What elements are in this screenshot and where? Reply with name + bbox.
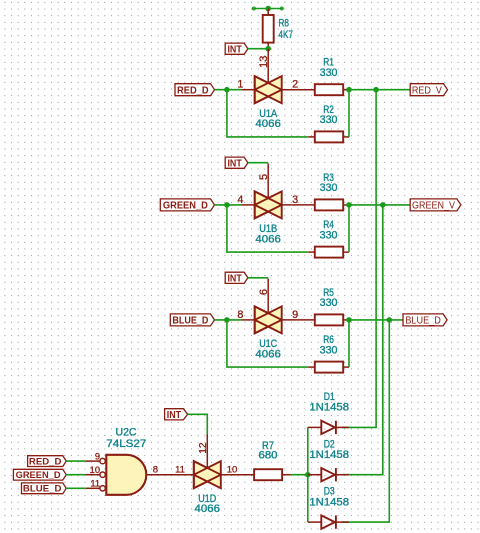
R8 pin 2 bbox=[267, 43, 269, 49]
global label GREEN_D (gate input) bbox=[13, 469, 66, 480]
junction input node bbox=[224, 202, 230, 208]
svg-text:4K7: 4K7 bbox=[279, 29, 293, 41]
svg-text:5: 5 bbox=[258, 174, 270, 180]
svg-text:1: 1 bbox=[237, 79, 243, 91]
wire end marker left bbox=[252, 7, 255, 10]
R8 pin 1 bbox=[267, 9, 269, 15]
global label RED_D bbox=[175, 84, 215, 97]
junction bus node bbox=[373, 87, 379, 93]
svg-text:INT: INT bbox=[167, 410, 181, 421]
svg-text:U2C: U2C bbox=[116, 426, 137, 438]
U2C pin 10 bbox=[86, 474, 100, 476]
wire GREEN_D to U2C bbox=[66, 474, 85, 476]
svg-text:330: 330 bbox=[320, 182, 338, 194]
svg-text:BLUE_D: BLUE_D bbox=[23, 484, 62, 494]
analog switch U1B bbox=[255, 191, 282, 218]
R2 left pin bbox=[308, 136, 315, 138]
wire blue bus to D3 bbox=[342, 320, 390, 522]
svg-text:9: 9 bbox=[95, 451, 100, 461]
svg-text:4066: 4066 bbox=[255, 233, 281, 245]
analog switch U1A bbox=[255, 76, 282, 103]
global label INT (U1C control) bbox=[225, 272, 248, 284]
U1B pin 5 (control) bbox=[267, 164, 269, 199]
svg-text:6: 6 bbox=[258, 289, 270, 295]
junction bus node bbox=[380, 202, 386, 208]
junction tie node bbox=[346, 202, 352, 208]
resistor R2 bbox=[315, 131, 343, 142]
junction R7/diode node bbox=[305, 472, 311, 478]
NOR gate U2C (74LS27, AND shape with input bubbles) bbox=[100, 455, 146, 495]
analog switch U1D bbox=[194, 461, 221, 488]
U1C pin 8 bbox=[241, 319, 254, 321]
junction R8 top node bbox=[265, 6, 271, 12]
global label BLUE_D (gate input) bbox=[22, 483, 67, 494]
svg-text:4066: 4066 bbox=[255, 348, 281, 360]
U1C pin 6 (control) bbox=[267, 279, 269, 314]
wire input to switch bbox=[215, 204, 242, 206]
svg-text:8: 8 bbox=[237, 309, 243, 321]
D2 cathode pin bbox=[336, 474, 349, 476]
U2C pin 9 bbox=[86, 460, 100, 462]
U1D pin 11 bbox=[175, 474, 194, 476]
svg-text:4066: 4066 bbox=[255, 118, 281, 130]
svg-text:GREEN_D: GREEN_D bbox=[163, 201, 208, 212]
resistor R7 bbox=[254, 469, 282, 480]
svg-text:INT: INT bbox=[227, 44, 241, 55]
svg-text:11: 11 bbox=[90, 479, 100, 489]
global label RED_D (gate input) bbox=[28, 456, 67, 467]
R5 right pin bbox=[343, 319, 349, 321]
wire red bus to D1 bbox=[342, 90, 376, 428]
svg-text:330: 330 bbox=[320, 114, 338, 126]
svg-text:INT: INT bbox=[227, 273, 241, 284]
svg-text:11: 11 bbox=[175, 465, 185, 476]
U2C pin 8 (output) bbox=[146, 474, 175, 476]
svg-text:1N1458: 1N1458 bbox=[309, 449, 349, 461]
wire lower resistor tie-up bbox=[348, 205, 350, 252]
R2 right pin bbox=[343, 136, 349, 138]
wire input to switch bbox=[215, 89, 242, 91]
svg-text:13: 13 bbox=[258, 56, 270, 68]
R4 left pin bbox=[308, 251, 315, 253]
svg-text:10: 10 bbox=[90, 465, 100, 475]
global label INT (U1D control) bbox=[165, 409, 188, 421]
wire bypass to lower resistor bbox=[227, 320, 308, 367]
wire INT to U1D control bbox=[188, 414, 208, 434]
svg-text:R8: R8 bbox=[279, 18, 290, 30]
wire BLUE_D to U2C bbox=[66, 487, 85, 489]
svg-text:3: 3 bbox=[292, 194, 298, 206]
wire INT to control pin bbox=[248, 162, 268, 164]
svg-text:330: 330 bbox=[320, 229, 338, 241]
svg-text:9: 9 bbox=[292, 309, 298, 321]
wire input to switch bbox=[215, 319, 242, 321]
svg-text:GREEN_D: GREEN_D bbox=[16, 470, 61, 480]
svg-text:8: 8 bbox=[153, 465, 158, 476]
R7 right pin bbox=[282, 474, 291, 476]
svg-text:330: 330 bbox=[320, 297, 338, 309]
svg-text:BLUE_D: BLUE_D bbox=[405, 316, 441, 327]
resistor R5 bbox=[315, 314, 343, 325]
global label GREEN_V bbox=[410, 199, 461, 212]
svg-text:10: 10 bbox=[227, 465, 238, 476]
diode D3 bbox=[321, 515, 336, 528]
D1 anode pin bbox=[308, 426, 322, 428]
junction bus node bbox=[387, 317, 393, 323]
global label GREEN_D bbox=[160, 199, 214, 212]
U1B pin 4 bbox=[241, 204, 254, 206]
wire RED_D to U2C bbox=[66, 460, 85, 462]
svg-text:BLUE_D: BLUE_D bbox=[172, 316, 208, 327]
U1A pin 1 bbox=[241, 89, 254, 91]
wire green bus to D2 bbox=[342, 205, 383, 475]
U1A pin 13 (control) bbox=[267, 49, 269, 83]
D2 anode pin bbox=[308, 474, 322, 476]
U1C pin 9 bbox=[282, 319, 315, 321]
wire INT to control pin bbox=[248, 277, 268, 279]
svg-text:12: 12 bbox=[198, 442, 209, 454]
svg-text:330: 330 bbox=[320, 344, 338, 356]
R6 left pin bbox=[308, 366, 315, 368]
svg-text:4: 4 bbox=[237, 194, 243, 206]
svg-text:1N1458: 1N1458 bbox=[309, 402, 349, 414]
wire lower resistor tie-up bbox=[348, 90, 350, 137]
D3 cathode pin bbox=[336, 521, 349, 523]
svg-text:330: 330 bbox=[320, 67, 338, 79]
wire lower resistor tie-up bbox=[348, 320, 350, 367]
resistor R4 bbox=[315, 247, 343, 258]
svg-text:RED_D: RED_D bbox=[177, 85, 209, 96]
wire bypass to lower resistor bbox=[227, 90, 308, 137]
svg-text:680: 680 bbox=[259, 450, 278, 462]
junction INT/R8/pin13 node bbox=[265, 46, 271, 52]
resistor R8 bbox=[263, 15, 274, 43]
U1A pin 2 bbox=[282, 89, 315, 91]
resistor R3 bbox=[315, 199, 343, 210]
global label INT (U1B control) bbox=[225, 157, 248, 169]
svg-text:2: 2 bbox=[292, 79, 298, 91]
junction input node bbox=[224, 317, 230, 323]
wire diode anode bus bbox=[307, 427, 309, 522]
R4 right pin bbox=[343, 251, 349, 253]
U2C pin 11 bbox=[86, 487, 100, 489]
wire to right label bbox=[349, 204, 410, 206]
U1D pin 10 bbox=[221, 474, 254, 476]
global label BLUE_D bbox=[403, 314, 447, 327]
junction tie node bbox=[346, 317, 352, 323]
wire R7 to diode bus bbox=[291, 474, 308, 476]
svg-text:RED_D: RED_D bbox=[29, 456, 62, 466]
wire INT to R8 node bbox=[248, 48, 268, 50]
U1D pin 12 (control) bbox=[206, 435, 208, 468]
D1 cathode pin bbox=[336, 426, 349, 428]
svg-text:GREEN_V: GREEN_V bbox=[412, 201, 455, 212]
analog switch U1C bbox=[255, 306, 282, 333]
svg-text:1N1458: 1N1458 bbox=[309, 496, 349, 508]
global label BLUE_D bbox=[170, 314, 214, 327]
diode D1 bbox=[321, 421, 336, 434]
wire end marker right bbox=[280, 7, 283, 10]
U1B pin 3 bbox=[282, 204, 315, 206]
svg-text:74LS27: 74LS27 bbox=[106, 438, 146, 450]
resistor R1 bbox=[315, 84, 343, 95]
wire stub above R8 bbox=[253, 8, 284, 10]
global label RED_V bbox=[410, 84, 447, 97]
R1 right pin bbox=[343, 89, 349, 91]
junction tie node bbox=[346, 87, 352, 93]
R6 right pin bbox=[343, 366, 349, 368]
R3 right pin bbox=[343, 204, 349, 206]
resistor R6 bbox=[315, 362, 343, 373]
wire bypass to lower resistor bbox=[227, 205, 308, 252]
global label INT (U1A control) bbox=[225, 43, 248, 55]
D3 anode pin bbox=[308, 521, 322, 523]
wire to right label bbox=[349, 319, 403, 321]
svg-text:RED_V: RED_V bbox=[412, 85, 442, 96]
wire to right label bbox=[349, 89, 410, 91]
diode D2 bbox=[321, 468, 336, 481]
svg-text:INT: INT bbox=[227, 158, 241, 169]
junction input node bbox=[224, 87, 230, 93]
svg-text:4066: 4066 bbox=[195, 503, 221, 515]
